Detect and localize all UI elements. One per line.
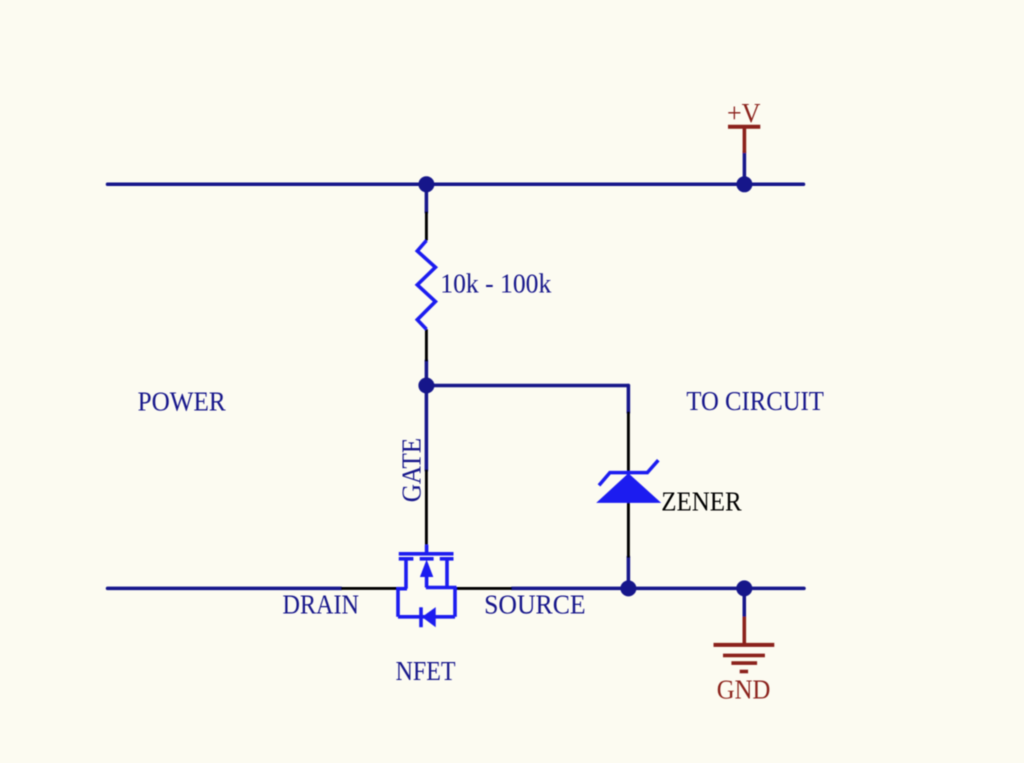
svg-text:10k - 100k: 10k - 100k	[440, 268, 551, 298]
svg-text:DRAIN: DRAIN	[283, 590, 360, 620]
svg-text:GATE: GATE	[397, 438, 427, 503]
svg-text:ZENER: ZENER	[661, 486, 742, 516]
svg-text:SOURCE: SOURCE	[484, 590, 585, 620]
svg-text:NFET: NFET	[396, 656, 456, 686]
svg-text:TO CIRCUIT: TO CIRCUIT	[686, 386, 824, 416]
svg-text:GND: GND	[717, 675, 771, 705]
svg-text:+V: +V	[727, 98, 761, 128]
svg-text:POWER: POWER	[138, 387, 226, 417]
